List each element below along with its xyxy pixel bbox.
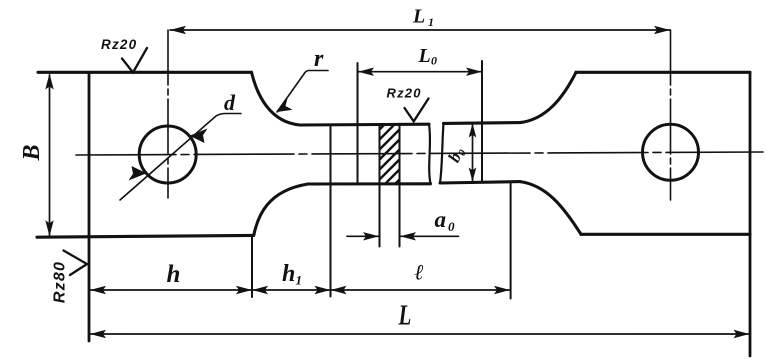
B bottom arrow — [45, 220, 53, 236]
L right arrow — [734, 330, 750, 338]
svg-text:h: h — [282, 261, 295, 287]
a0 right arrow pointing left — [400, 232, 416, 240]
svg-text:ℓ: ℓ — [415, 260, 424, 285]
extension line x=357.5 (L0 left) — [357, 63, 359, 184]
a0 left arrow pointing right — [363, 232, 379, 240]
dimension L line — [90, 333, 750, 335]
specimen outline: narrow bottom edge right piece — [440, 182, 520, 183]
b0 bottom arrow — [469, 168, 477, 182]
horizontal centerline — [76, 152, 763, 155]
extension line x=482 (L0 right) — [481, 61, 483, 182]
r leader arrow — [277, 98, 293, 112]
roughness checkmark Rz80 left edge — [64, 251, 88, 276]
L1 left arrow — [170, 26, 186, 34]
l right arrow — [494, 286, 510, 294]
svg-text:h: h — [167, 261, 181, 288]
dimension a0 lines — [347, 235, 379, 237]
arrowheads — [45, 26, 749, 338]
svg-text:Rz80: Rz80 — [52, 261, 69, 303]
svg-text:0: 0 — [448, 219, 455, 234]
specimen outline: top-left fillet radius r — [252, 72, 301, 125]
hatch lines — [374, 105, 404, 205]
h right arrow — [236, 286, 252, 294]
specimen outline: narrow top edge right piece — [444, 121, 521, 125]
extension line x=252 (h/h1 boundary) — [251, 236, 253, 297]
specimen outline: narrow section top edge left piece — [300, 123, 429, 127]
L left arrow — [90, 330, 106, 338]
svg-text:r: r — [314, 46, 324, 72]
svg-text:Rz20: Rz20 — [101, 37, 137, 52]
right hole — [643, 124, 699, 180]
hatched cross-section edges + a0 extension lines — [380, 124, 400, 247]
extension line x=510.6 (l right) — [510, 183, 512, 299]
specimen outline: top-right fillet — [520, 72, 576, 122]
specimen outline: left grip top edge — [38, 71, 252, 74]
label b0 rotated — [444, 143, 469, 165]
svg-text:Rz20: Rz20 — [387, 86, 422, 101]
left hole — [139, 126, 196, 183]
svg-text:1: 1 — [428, 15, 434, 29]
left hole vertical centerline / L1 extension — [167, 30, 169, 198]
d leader lower arrow — [129, 166, 147, 181]
svg-text:L: L — [398, 301, 412, 332]
svg-text:d: d — [224, 90, 236, 115]
specimen outline: narrow bottom edge left piece — [308, 182, 431, 185]
L1 right arrow — [654, 26, 670, 34]
r leader with underline — [277, 71, 328, 113]
break edge left piece — [429, 124, 431, 184]
extension line x=330.5 (h1/l boundary) — [330, 125, 332, 297]
svg-text:B: B — [19, 144, 45, 161]
roughness checkmark Rz20 top-left — [122, 48, 147, 73]
svg-text:1: 1 — [296, 273, 303, 288]
L0 left arrow — [358, 68, 374, 76]
d leader diagonal with underline — [120, 114, 241, 201]
specimen outline: left end edge with extension down to L dimension — [88, 72, 91, 341]
h1 right arrow — [315, 286, 331, 294]
specimen outline: right grip bottom edge — [581, 233, 750, 236]
dimension L1 line — [170, 29, 670, 31]
roughness checkmark Rz20 middle — [405, 99, 429, 122]
specimen outline: right grip top edge — [576, 71, 750, 74]
d leader upper arrow — [190, 129, 208, 144]
svg-text:L: L — [412, 6, 425, 28]
break edge right piece — [440, 123, 444, 183]
dimension B line — [49, 75, 51, 236]
L0 right arrow — [466, 68, 482, 76]
svg-text:0: 0 — [431, 54, 437, 68]
l left arrow — [331, 286, 347, 294]
right hole vertical centerline / L1 extension — [670, 30, 672, 200]
B top arrow — [45, 74, 53, 90]
dimension b0 line — [472, 124, 474, 182]
dimension h,h1,l line — [90, 289, 511, 291]
specimen outline: bottom-left fillet — [254, 184, 308, 235]
svg-text:L: L — [418, 45, 431, 67]
h left arrow — [90, 286, 106, 294]
b0 top arrow — [469, 123, 477, 137]
specimen outline: left grip bottom edge — [37, 235, 254, 237]
svg-text:a: a — [435, 207, 447, 232]
specimen outline: right end edge with extension down to L dimension — [749, 72, 752, 356]
specimen outline: bottom-right fillet — [520, 182, 581, 235]
dimension L0 line — [358, 71, 482, 73]
h1 left arrow — [252, 286, 268, 294]
